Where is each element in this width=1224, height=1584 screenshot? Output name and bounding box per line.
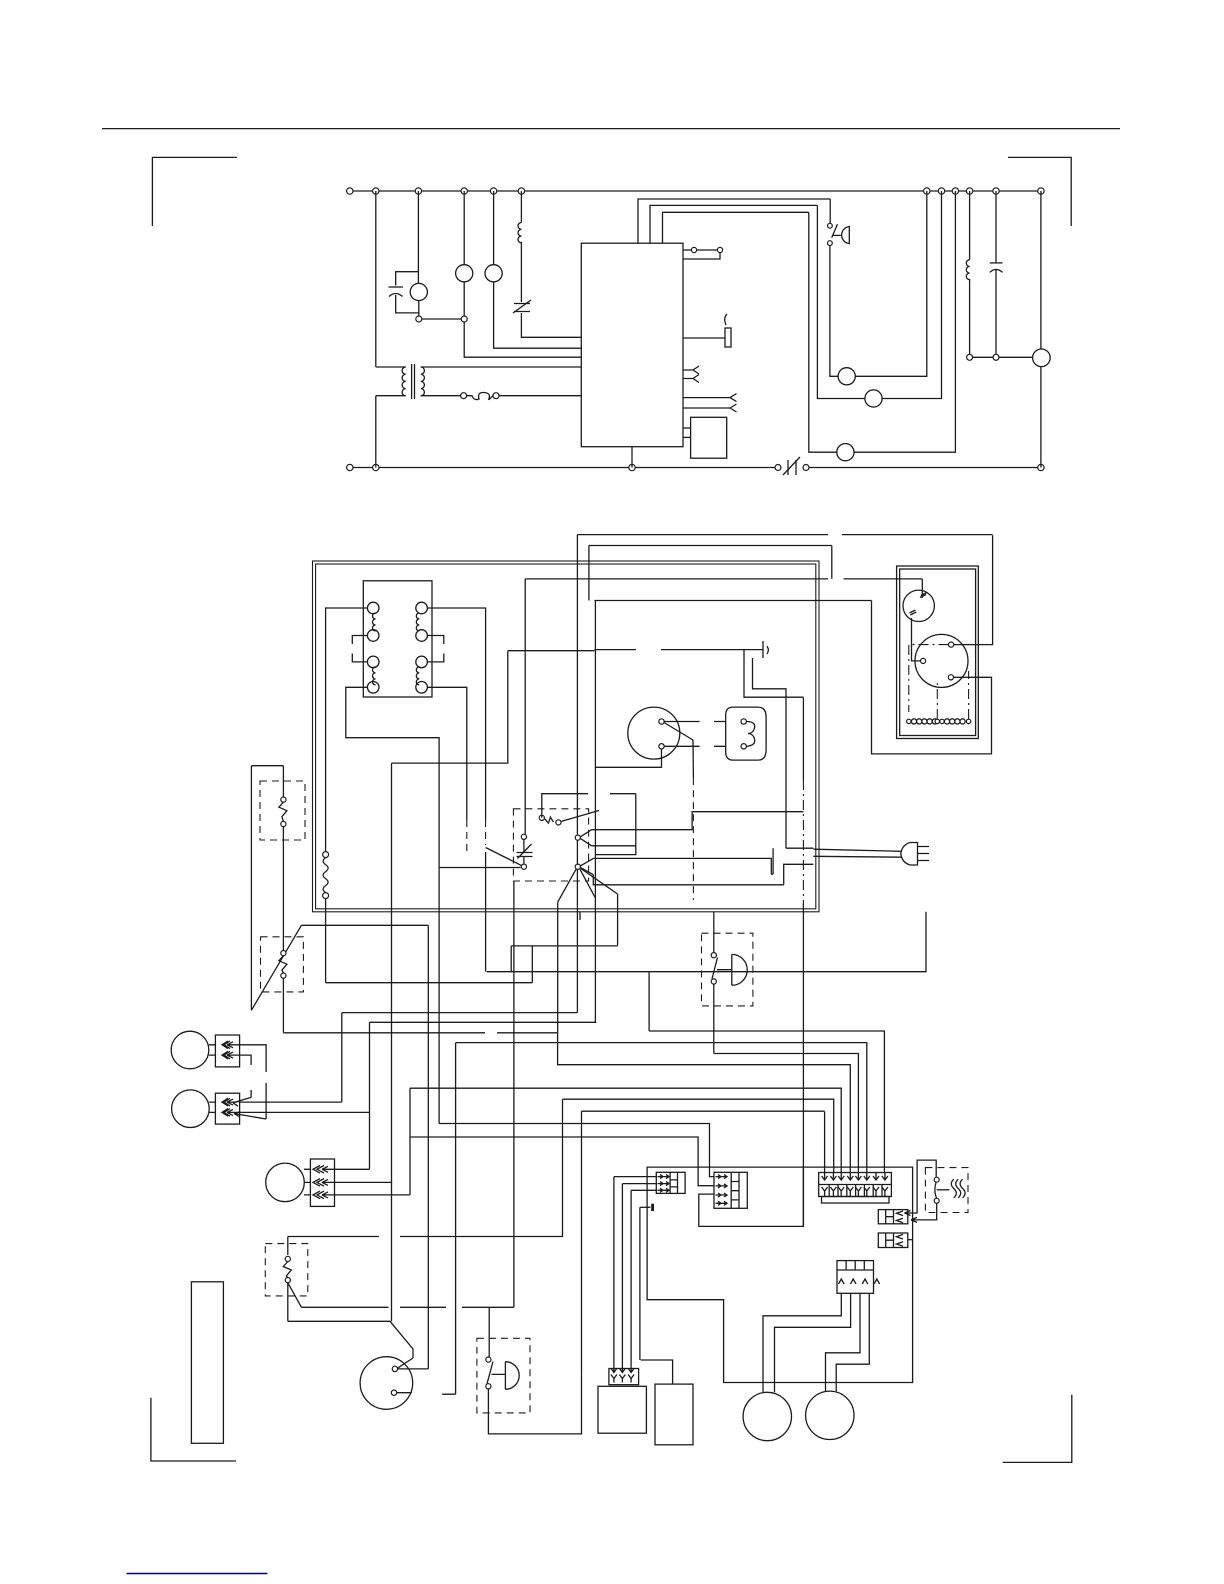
coil winding right	[940, 719, 944, 723]
heater dashed box	[925, 1168, 968, 1213]
node connector pair left	[416, 316, 422, 322]
heater switch circle bottom	[934, 1198, 939, 1203]
relay switch circle b	[556, 820, 561, 825]
connector fork stub3	[683, 394, 737, 402]
node L2 terminal	[347, 464, 353, 470]
wire buzzer out bottom	[488, 1374, 581, 1434]
connector fork stub4	[683, 404, 737, 412]
coil RY1a winding	[373, 613, 376, 631]
wire row R6a	[410, 1088, 841, 1172]
wire coil top-left lead	[326, 608, 368, 852]
node junction x376	[373, 188, 379, 194]
wire lamp2 link	[240, 1101, 342, 1103]
heater terminal T2	[741, 744, 746, 749]
control PCB outline	[647, 1167, 913, 1382]
wire lamp2 to box	[209, 1102, 215, 1112]
connector block E	[837, 1261, 874, 1294]
heater switch stub	[937, 1189, 950, 1191]
node connector pair right	[461, 316, 467, 322]
wrap path around fan box	[872, 601, 992, 754]
wire pin2 down to motor M3	[817, 205, 865, 398]
wire row H1137	[410, 1137, 714, 1186]
wire cavity to magnetron bottom	[595, 749, 661, 767]
motor M4	[837, 444, 854, 461]
wire M5 to bottom bus	[1040, 367, 1042, 468]
wire lamp2 out2	[227, 1109, 370, 1115]
box1	[598, 1386, 646, 1433]
lamp1 connector box	[215, 1035, 239, 1067]
wire TTM T1 out	[398, 1368, 429, 1370]
power cord lower	[813, 855, 901, 858]
fork node 2	[575, 864, 580, 869]
lamp3 connector box	[310, 1159, 334, 1206]
node x996 open	[993, 354, 999, 360]
bell switch circle bottom	[711, 979, 716, 984]
connector fork stub1	[683, 366, 699, 374]
wire board to K1 pin1	[683, 427, 691, 429]
wire coil drop to H971	[485, 940, 487, 972]
interlock switch on bottom bus	[775, 465, 781, 471]
coil winding left	[907, 719, 911, 723]
thermostat TH3 dashed box	[265, 1244, 308, 1296]
oven lamp OL2	[172, 1090, 210, 1128]
wire V x581 dashed up	[581, 1111, 583, 1374]
magnetron terminal T2	[659, 744, 664, 749]
lamp2 chevrons	[222, 1098, 230, 1106]
magnetron MG1 body	[628, 707, 680, 759]
relay coil block outline	[363, 581, 432, 697]
bell switch circle top	[711, 953, 716, 958]
fan box outer	[897, 566, 979, 739]
wire V x410	[409, 1088, 411, 1137]
capacitor C2	[990, 262, 1003, 264]
node junction x418	[415, 188, 421, 194]
transformer T1 core	[411, 364, 413, 399]
wire T1 to heater	[664, 721, 726, 723]
node junction x521	[518, 188, 524, 194]
node L2 x1041	[1038, 464, 1044, 470]
wire H867	[439, 867, 520, 869]
big connector C	[819, 1173, 892, 1197]
heater switch circle top	[934, 1177, 939, 1182]
wire coil L2 to node	[969, 279, 971, 354]
fan box inner	[900, 569, 976, 736]
inductor coil L2	[966, 260, 969, 280]
wire connector down to board	[464, 322, 581, 357]
node junction x464	[461, 188, 467, 194]
tall rectangle	[191, 1282, 223, 1444]
wire lamp1 to box	[209, 1045, 216, 1055]
thermostat TH1 dashed box	[260, 781, 305, 840]
relay feed from top	[524, 579, 526, 834]
wire V x428 to turntable	[427, 925, 429, 1369]
heater feed loop	[905, 1160, 937, 1215]
lamp LP2	[485, 265, 502, 282]
wire row H6	[370, 1021, 597, 1023]
TH3 circle bottom	[285, 1278, 290, 1283]
wire FM T1 to right riser	[954, 535, 993, 644]
transformer T1 primary	[376, 366, 406, 368]
wire row R3	[456, 1043, 867, 1173]
wire drop x464 to lamp	[463, 191, 465, 265]
bracket stub left upper	[352, 636, 367, 645]
connector C arrows top row	[822, 1173, 828, 1181]
coil RY1b top circle	[367, 656, 379, 668]
TH2 circle bottom	[281, 973, 286, 978]
connector block B	[714, 1172, 747, 1208]
magnetron thermal blade	[664, 723, 693, 741]
page top rule	[102, 128, 1120, 130]
wire lamp3 to box	[304, 1169, 310, 1195]
wire lamp LP2 to board	[494, 282, 582, 348]
probe stub on board right	[683, 337, 725, 339]
bracket stub right lower	[427, 654, 443, 662]
node junction x969	[966, 188, 972, 194]
wire V x596 inner-left	[594, 601, 596, 1023]
wire pin3 down to motor M4	[809, 212, 837, 452]
crystal stub	[640, 1206, 651, 1208]
coil RY2b top circle	[416, 656, 428, 668]
wire cutout to board	[521, 313, 581, 337]
FM terminal2	[921, 658, 926, 663]
wire interlock coil down	[325, 899, 327, 983]
wire SM top feed	[921, 579, 923, 598]
TH1 circle top	[281, 797, 286, 802]
wire fuse to board	[499, 395, 581, 397]
wire cap link	[523, 839, 525, 864]
node junction x996	[993, 188, 999, 194]
wire transformer primary bottom to bus	[375, 396, 377, 468]
wire V x649 link	[648, 972, 650, 1031]
wire H1321 to turntable	[288, 1321, 413, 1358]
heater terminal T1	[741, 719, 746, 724]
relay box K1 on board	[691, 417, 727, 458]
jumper loop on board right	[683, 249, 691, 251]
lamp LP1	[456, 265, 473, 282]
wire row R5	[558, 1032, 851, 1172]
feed B drop	[831, 546, 833, 579]
wire blade into relay cap	[486, 848, 522, 866]
interlock coil with terminals	[323, 852, 329, 858]
wire motor M1 bottom	[418, 301, 420, 316]
inductor coil L1	[518, 223, 521, 243]
wire row R4 bell	[714, 1054, 859, 1173]
antenna line	[594, 649, 763, 651]
oven unit outer border	[313, 561, 820, 912]
wire board top pin2	[650, 205, 817, 243]
TH1 circle bottom	[281, 821, 286, 826]
wire drop x521 to coil	[520, 191, 522, 223]
wire antenna branch 2	[753, 658, 787, 848]
buzzer switch circle top	[486, 1357, 491, 1362]
connector C Y row	[822, 1187, 888, 1197]
wire V x514	[513, 881, 515, 1307]
fork diag V x617	[617, 894, 619, 946]
coil RY1a top circle	[367, 602, 379, 614]
buzzer switch S1	[829, 199, 831, 223]
heater element wave	[746, 722, 754, 747]
wire TH1 to TH2	[282, 827, 284, 951]
arrow diag into lamp2 box	[233, 1097, 266, 1119]
node junction x494	[490, 188, 496, 194]
cord staircase A	[773, 848, 813, 874]
bottom-left blue rule	[127, 1573, 268, 1575]
wire row R6	[563, 1099, 834, 1172]
heater switch blade	[935, 1182, 937, 1198]
wire lamp3 out1 arrow	[322, 1166, 370, 1172]
buzzer BZ1	[833, 234, 841, 236]
bell switch blade	[712, 958, 718, 979]
wire TH2 down to row R2	[282, 978, 284, 1033]
bell dashed box	[702, 933, 753, 1006]
thermal cutout TCO	[513, 300, 531, 313]
TH3 circle top	[285, 1256, 290, 1261]
wire fork2 lower run	[593, 875, 783, 885]
wire TH3 feed	[288, 1099, 563, 1255]
antenna bar	[762, 641, 764, 658]
node L2 x632	[629, 464, 635, 470]
coil RY2a top circle	[416, 602, 428, 614]
wire fork2 upper run	[593, 858, 773, 874]
wire bell bottom	[713, 984, 715, 1053]
wire connector link	[422, 318, 461, 320]
lamp3 chevrons	[313, 1166, 324, 1174]
dash-dot riser right	[968, 671, 970, 719]
lamp2 connector box	[215, 1093, 239, 1124]
wire V x341	[341, 1013, 343, 1103]
wire TH3 bottom leg	[287, 1283, 289, 1322]
wire jog up x511	[510, 946, 512, 972]
thermostat TH2 dashed box	[261, 937, 304, 992]
cord staircase B	[784, 864, 814, 885]
wire H925 door lever	[301, 924, 428, 926]
wire board top pin3	[663, 212, 809, 243]
wire left header	[251, 765, 283, 767]
wire lamp3 out3 arrow	[322, 1137, 410, 1198]
buzzer dashed box	[477, 1338, 530, 1413]
thermal cap circle top	[521, 834, 526, 839]
corner bracket top-left	[152, 157, 237, 226]
wire antenna return	[744, 650, 803, 698]
fuse F1	[461, 393, 467, 399]
door lever blade	[251, 925, 301, 1010]
bracket stub left lower	[352, 654, 367, 662]
wire M4 to bus drop x955	[854, 191, 955, 452]
wire drop x376 to transformer	[375, 191, 377, 367]
buzzer switch circle bottom	[486, 1384, 491, 1389]
wire H971	[487, 971, 649, 973]
coil RY1b bottom circle	[367, 682, 379, 694]
wire drop x1041 to M5	[1040, 191, 1042, 349]
wire B row3 loop	[699, 1167, 804, 1226]
TTM blade	[398, 1358, 414, 1368]
wire buzzer feed	[488, 1307, 490, 1357]
small connector YYY	[609, 1369, 639, 1385]
wires E down to motors	[763, 1293, 841, 1392]
wire row R2	[283, 1032, 557, 1034]
relay top loop	[542, 794, 636, 855]
wire T2 to heater	[664, 745, 726, 747]
long V left x577	[576, 535, 578, 1013]
wire C2 to node	[995, 269, 997, 354]
node junction x1041	[1038, 188, 1044, 194]
connector D1	[878, 1210, 908, 1224]
wire row R7	[582, 1110, 825, 1112]
node L1 terminal	[347, 188, 353, 194]
turntable motor TTM	[360, 1357, 413, 1410]
wire drop x969 to coil L2	[969, 191, 971, 260]
node x969 open	[967, 354, 973, 360]
plug prongs	[918, 847, 930, 861]
TH2 zigzag	[279, 956, 287, 973]
wire board top pin1	[638, 199, 830, 243]
block E arrows	[839, 1279, 880, 1284]
coil RY2a winding	[416, 613, 419, 631]
stirrer motor SM	[903, 590, 934, 621]
wire V x251	[250, 766, 252, 1011]
wire long V x392	[391, 763, 393, 1321]
wire lamp LP1 bottom to connector	[463, 282, 465, 316]
thermal cap circle bottom	[521, 864, 526, 869]
node junction x955	[952, 188, 958, 194]
wire lamp2 out1 arrow	[227, 1099, 236, 1105]
coil RY1a bottom circle	[367, 630, 379, 642]
wire R2b to connector	[649, 1031, 884, 1173]
wire H650 into cavity	[508, 650, 595, 652]
wire H1307	[301, 1306, 514, 1308]
motor M5 right	[1033, 349, 1051, 367]
oven lamp OL1	[171, 1031, 209, 1069]
fan motor FM2	[743, 1392, 791, 1440]
wire H946	[511, 945, 617, 947]
TH3 blade	[288, 1283, 302, 1308]
dash-dot riser left	[936, 680, 938, 719]
plug body	[901, 843, 918, 866]
wire coil bottom-left lead	[346, 687, 439, 1123]
wire H983	[326, 982, 533, 984]
wire M2 to bus drop x927	[855, 191, 927, 376]
oven lamp OL3	[266, 1163, 305, 1202]
wire drop x494 to lamp LP2	[493, 191, 495, 265]
wire coil bottom-right lead	[427, 687, 466, 820]
motor M1 fan	[410, 283, 427, 300]
relay switch zigzag	[544, 817, 553, 823]
vertical feeds A	[613, 1177, 615, 1369]
wire TTM T2 out	[397, 1393, 456, 1395]
dash link T1 left	[909, 645, 949, 712]
lamp1 chevrons	[222, 1041, 230, 1049]
oven unit inner border	[316, 564, 816, 909]
wire bottom bus L2	[350, 467, 778, 469]
capacitor C1	[389, 286, 404, 288]
wire board bottom to bus	[631, 447, 633, 468]
relay switch circle a	[539, 815, 544, 820]
TTM terminal2	[391, 1390, 396, 1395]
TH2 circle top	[281, 951, 286, 956]
wires into block A	[614, 1177, 656, 1191]
TH1 zigzag	[279, 802, 287, 821]
box2	[655, 1384, 693, 1445]
capacitor C1 bracket	[396, 272, 419, 313]
wire fork1 upper run	[592, 812, 804, 830]
coil RY2b bottom circle	[416, 682, 428, 694]
wire row H1124	[439, 1124, 714, 1177]
wire fork1 lower run	[592, 845, 636, 847]
motor M2	[838, 368, 855, 385]
connector D2	[878, 1233, 908, 1248]
wire V x580 stub	[579, 912, 581, 920]
coil RY2b winding	[416, 667, 419, 685]
connector fork stub2	[683, 375, 699, 383]
bracket stub right upper	[427, 636, 443, 645]
corner bracket bottom-left	[151, 1398, 236, 1461]
wire lamp3 out2 arrow	[322, 1179, 392, 1185]
node L2 x376	[373, 464, 379, 470]
relay blade to cavity	[561, 811, 599, 822]
fork node 1	[575, 835, 580, 840]
wire row R1	[342, 1012, 578, 1014]
wire box2 top	[641, 1360, 673, 1384]
fork tips 2	[580, 858, 593, 874]
fork2 diagonals down	[558, 869, 618, 903]
corner bracket bottom-right	[1003, 1395, 1072, 1463]
coil RY2a bottom circle	[416, 630, 428, 642]
fork tips 1	[580, 830, 591, 846]
motor M3	[865, 390, 882, 407]
long V x589	[588, 546, 590, 601]
control board U1	[581, 243, 683, 447]
corner bracket top-right	[1008, 157, 1071, 226]
wire S1 down to motor M2	[830, 246, 838, 377]
fan motor FM3	[806, 1391, 854, 1439]
wire lamp1 out1	[227, 1042, 266, 1072]
top feed line A	[577, 534, 992, 536]
wire top bus L1	[350, 190, 1041, 192]
wire coil top-right lead down	[427, 608, 485, 820]
wire H579	[525, 578, 922, 580]
magnetron terminal T1	[659, 719, 664, 724]
node junction x941	[938, 188, 944, 194]
top feed line B	[589, 545, 832, 547]
wire T2 to SM	[912, 618, 921, 661]
buzzer horn	[492, 1362, 520, 1390]
buzzer blade	[487, 1362, 493, 1384]
FM terminal3	[948, 675, 953, 680]
wire row R1b	[649, 912, 926, 972]
wire long V x803	[802, 697, 804, 780]
heater HE1 body	[726, 707, 766, 760]
wire into TH1	[282, 766, 284, 797]
heater wave lines	[951, 1179, 965, 1198]
wire V x455 to turntable T2	[455, 1043, 457, 1395]
power cord upper	[813, 849, 901, 851]
connector C bottom bar	[822, 1197, 890, 1204]
wire D2 stub	[908, 1239, 913, 1241]
fork diag V x557	[557, 902, 559, 1032]
wire node row to big circle	[973, 356, 1033, 358]
heater return wire	[911, 1203, 937, 1222]
wire lamp1 out2	[227, 1052, 251, 1065]
node junction x927	[924, 188, 930, 194]
fan motor FM	[915, 634, 968, 687]
wire drop x996 to capacitor C2	[995, 191, 997, 263]
wire V x369	[369, 1022, 371, 1169]
wire V x824 to connector	[824, 1112, 826, 1173]
TH3 zigzag	[283, 1262, 291, 1278]
coil RY1b winding	[373, 667, 376, 685]
wire coil to thermal cutout	[520, 242, 522, 302]
connector block A	[656, 1172, 685, 1193]
